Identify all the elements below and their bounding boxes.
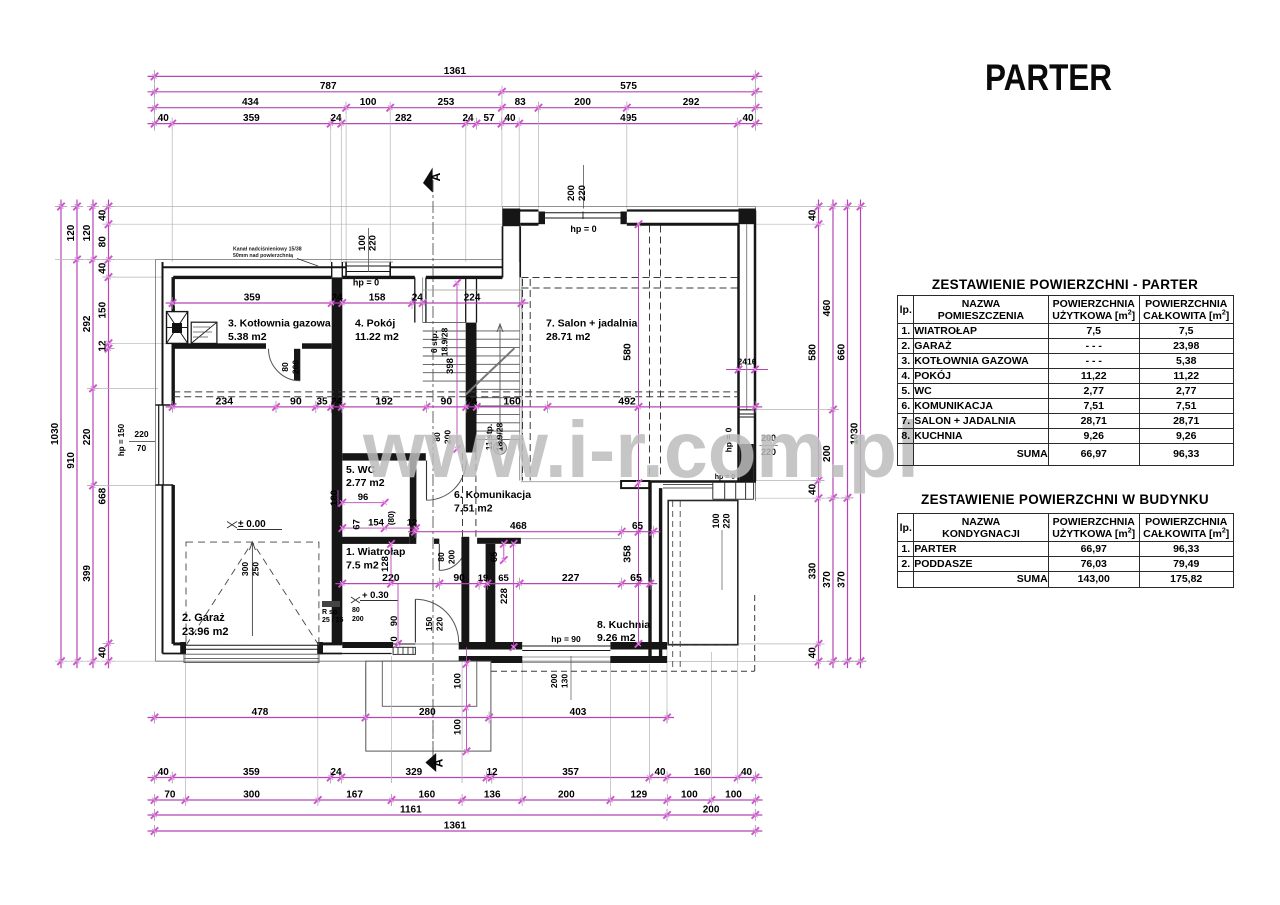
svg-text:40: 40 [98, 209, 109, 221]
svg-text:R sp.: R sp. [322, 609, 339, 616]
svg-text:7.51 m2: 7.51 m2 [454, 503, 493, 515]
wc dims 67/154/12 [342, 527, 416, 529]
extension lines bottom [365, 665, 367, 723]
section line A-A [432, 180, 434, 757]
svg-text:100: 100 [681, 789, 698, 800]
svg-text:40: 40 [158, 767, 170, 778]
dashed floor-above lines horizontal mid [173, 391, 738, 393]
svg-text:129: 129 [630, 789, 647, 800]
svg-text:70: 70 [137, 443, 147, 453]
svg-text:7. Salon + jadalnia: 7. Salon + jadalnia [546, 318, 637, 330]
svg-text:282: 282 [395, 113, 412, 124]
svg-text:180: 180 [329, 490, 340, 506]
svg-text:35: 35 [316, 396, 328, 407]
svg-text:668: 668 [98, 487, 109, 504]
WC door leaf + arc [438, 544, 440, 571]
wc dim 180 vertical [337, 490, 339, 507]
svg-text:200: 200 [352, 616, 364, 623]
right dimension chain 40/580/40/330/40 [818, 200, 820, 669]
svg-text:220: 220 [368, 235, 379, 251]
north wall inner face [173, 276, 332, 279]
svg-text:460: 460 [822, 299, 833, 316]
WC/wiatrolap wall [340, 537, 409, 544]
entrance threshold window [392, 643, 416, 645]
bay NE corner block [739, 209, 756, 225]
garage door [185, 644, 317, 646]
svg-text:hp = 150: hp = 150 [117, 423, 126, 456]
svg-text:65: 65 [632, 521, 644, 532]
svg-text:12: 12 [486, 767, 498, 778]
svg-text:90: 90 [453, 572, 465, 584]
stair arrow [499, 326, 501, 448]
svg-text:130: 130 [560, 674, 570, 688]
left dimension chain 40/80/40/150/12/668/40 [108, 200, 110, 669]
svg-text:150: 150 [98, 301, 109, 318]
bottom dimension chain row 1361 [148, 830, 763, 832]
svg-text:580: 580 [622, 343, 634, 361]
second boiler box [191, 322, 217, 343]
svg-text:+ 0.30: + 0.30 [362, 590, 389, 601]
porch vertical dim 100/100 [466, 645, 468, 751]
svg-text:200: 200 [574, 97, 591, 108]
svg-text:234: 234 [216, 395, 234, 407]
svg-text:40: 40 [98, 262, 109, 274]
entrance window north [346, 265, 390, 267]
interior chain 359/24/158/24/224 [166, 302, 529, 304]
svg-text:65: 65 [489, 551, 500, 562]
pokoj 398 vertical dim [456, 283, 458, 449]
kuchnia east wall [648, 482, 651, 663]
right dimension chain 1030 [860, 200, 862, 669]
bottom dimension chain row 478/280/403 [148, 717, 675, 719]
section arrow bottom [425, 753, 436, 772]
svg-text:11.22 m2: 11.22 m2 [355, 331, 399, 343]
svg-text:167: 167 [346, 789, 363, 800]
svg-text:(80): (80) [387, 511, 396, 526]
kuchnia south window [522, 645, 610, 647]
svg-text:359: 359 [243, 113, 260, 124]
svg-text:40: 40 [808, 647, 819, 659]
svg-text:329: 329 [406, 767, 423, 778]
svg-text:253: 253 [438, 97, 455, 108]
svg-text:300: 300 [240, 562, 250, 576]
wiatrolap 90 vertical dim [397, 584, 399, 644]
svg-text:292: 292 [683, 97, 700, 108]
svg-text:280: 280 [419, 707, 436, 718]
svg-text:70: 70 [164, 789, 176, 800]
svg-text:80: 80 [352, 607, 360, 614]
area table BUDYNEK [897, 492, 1233, 507]
wiatrolap east wall [461, 537, 469, 648]
svg-text:575: 575 [620, 81, 637, 92]
svg-text:468: 468 [510, 521, 527, 532]
svg-text:910: 910 [66, 452, 77, 469]
svg-text:1030: 1030 [50, 422, 61, 445]
svg-text:80: 80 [280, 362, 290, 372]
extension lines top [154, 70, 156, 131]
svg-text:8. Kuchnia: 8. Kuchnia [597, 619, 650, 631]
svg-text:136: 136 [484, 789, 501, 800]
south wall kuchnia right [610, 642, 667, 650]
area table PARTER [897, 277, 1233, 292]
svg-text:200: 200 [558, 789, 575, 800]
svg-text:1. Wiatrołap: 1. Wiatrołap [346, 546, 405, 558]
top dimension chain row 787/575 [148, 91, 763, 93]
svg-text:357: 357 [562, 767, 579, 778]
left dimension chain 1030 [60, 200, 62, 669]
dashed verticals komunikacja [462, 453, 464, 537]
north wall outer face [163, 266, 347, 268]
svg-text:370: 370 [837, 571, 848, 588]
svg-text:100: 100 [360, 97, 377, 108]
100/220 window size label [368, 228, 370, 272]
svg-text:80: 80 [436, 552, 446, 562]
svg-text:160: 160 [418, 789, 435, 800]
svg-text:227: 227 [562, 572, 580, 584]
svg-text:50mm nad powierzchnią: 50mm nad powierzchnią [233, 253, 293, 259]
garage window west wall [158, 405, 160, 485]
svg-text:6 stp.: 6 stp. [429, 331, 439, 353]
east porch steps [663, 484, 713, 486]
svg-text:100: 100 [725, 789, 742, 800]
svg-text:90: 90 [290, 395, 302, 407]
200/220 salon window size label [583, 165, 585, 209]
svg-text:220: 220 [134, 429, 148, 439]
svg-text:1361: 1361 [444, 66, 467, 77]
svg-text:40: 40 [98, 646, 109, 658]
west wall outer face [162, 262, 164, 405]
bottom dimension chain row 40..40 [148, 777, 763, 779]
svg-text:158: 158 [369, 292, 386, 303]
stair flight 1 treads [423, 322, 466, 324]
svg-text:370: 370 [822, 571, 833, 588]
svg-text:200: 200 [703, 804, 720, 815]
svg-text:40: 40 [741, 767, 753, 778]
terrace eave dashed [754, 595, 756, 672]
right dimension chain 660/370 [847, 200, 849, 669]
svg-text:83: 83 [515, 97, 527, 108]
pokoj door leaf + arc [426, 461, 428, 501]
salon bay left wall [503, 209, 521, 227]
svg-text:224: 224 [464, 292, 481, 303]
west wall inner face [171, 277, 174, 405]
garage apron [184, 654, 319, 662]
svg-text:787: 787 [320, 81, 337, 92]
svg-text:12: 12 [407, 518, 418, 529]
svg-text:80: 80 [98, 236, 109, 248]
title PARTER [985, 57, 1112, 99]
south wall salon/kuchnia step [650, 480, 757, 482]
svg-text:www.i-r.com.pl: www.i-r.com.pl [362, 405, 919, 494]
svg-text:154: 154 [368, 518, 385, 529]
svg-text:1161: 1161 [400, 804, 422, 815]
pokoj south wall [342, 453, 426, 460]
svg-text:228: 228 [499, 588, 510, 604]
svg-text:40: 40 [742, 113, 754, 124]
svg-text:100: 100 [357, 235, 368, 251]
svg-text:200: 200 [566, 185, 577, 201]
top dimension chain row 1361 [148, 75, 763, 77]
svg-text:403: 403 [570, 707, 587, 718]
stairwell west wall stub [414, 277, 416, 322]
top dimension chain row 434..292 [148, 107, 763, 109]
interior long chain 234..492 [166, 406, 763, 408]
svg-text:9.26 m2: 9.26 m2 [597, 632, 636, 644]
svg-text:± 0.00: ± 0.00 [238, 519, 266, 530]
svg-text:359: 359 [244, 292, 261, 303]
kuchnia north stub wall [621, 481, 649, 488]
extension lines left [103, 206, 503, 208]
svg-text:220: 220 [82, 428, 93, 445]
svg-text:200: 200 [447, 550, 457, 564]
boiler hatched box [167, 312, 188, 344]
wc dims 96 [342, 502, 384, 504]
svg-text:478: 478 [252, 707, 269, 718]
svg-text:200: 200 [549, 674, 559, 688]
dashed lines salon top [522, 277, 739, 279]
dashed verticals salon [522, 279, 524, 481]
kuchnia west wall T [477, 538, 521, 544]
south wall garage [163, 653, 186, 655]
svg-text:0: 0 [389, 636, 400, 641]
bottom dimension chain row 70..100 [148, 799, 763, 801]
svg-text:399: 399 [82, 565, 93, 582]
svg-text:660: 660 [837, 343, 848, 360]
svg-text:250: 250 [251, 562, 261, 576]
pokoj east / stair middle wall [465, 277, 467, 322]
svg-text:hp = 0: hp = 0 [353, 278, 379, 288]
bottom dimension chain row 1161/200 [148, 814, 763, 816]
salon bay top wall outer [503, 209, 539, 211]
svg-text:7.5 m2: 7.5 m2 [346, 560, 379, 572]
svg-text:24: 24 [330, 767, 342, 778]
svg-text:28.71 m2: 28.71 m2 [546, 331, 591, 343]
svg-text:65: 65 [498, 573, 509, 584]
svg-text:434: 434 [242, 97, 259, 108]
extension lines through porch [391, 662, 393, 784]
svg-text:160: 160 [694, 767, 711, 778]
komunikacja chain 468/65 [408, 531, 660, 533]
salon/komunikacja boundary thin line [521, 481, 621, 483]
svg-text:12: 12 [98, 340, 109, 352]
svg-text:40: 40 [808, 209, 819, 221]
kotlownia door leaf + arc [294, 349, 300, 381]
svg-text:220: 220 [722, 513, 732, 528]
svg-text:120: 120 [82, 224, 93, 241]
svg-text:67: 67 [352, 519, 363, 530]
svg-text:580: 580 [808, 344, 819, 361]
extension lines right [756, 206, 866, 208]
svg-text:23.96 m2: 23.96 m2 [182, 626, 228, 638]
svg-text:1361: 1361 [444, 820, 467, 831]
svg-text:hp = 90: hp = 90 [551, 634, 581, 644]
svg-text:40: 40 [158, 113, 170, 124]
svg-text:100: 100 [711, 513, 721, 528]
chain 220/90/19/65/227/65 [335, 583, 657, 585]
svg-text:19: 19 [478, 573, 489, 584]
svg-text:24: 24 [331, 292, 343, 303]
section arrow top [423, 168, 433, 193]
garage/pokoj vertical wall [332, 277, 343, 644]
stairwell outline [519, 277, 521, 480]
svg-text:24: 24 [331, 396, 343, 407]
entrance door opening + leaf [415, 643, 458, 645]
svg-text:24: 24 [462, 113, 474, 124]
eave outline thin [155, 260, 157, 662]
salon 580/358 vertical dim [638, 224, 640, 644]
svg-text:330: 330 [808, 562, 819, 579]
svg-text:25 / 15: 25 / 15 [322, 617, 344, 624]
svg-text:120: 120 [66, 224, 77, 241]
south wall wiatrolap [342, 642, 393, 648]
east wall of salon with window [754, 211, 757, 481]
svg-text:24: 24 [330, 113, 342, 124]
svg-text:18.9/28: 18.9/28 [440, 328, 450, 357]
left dimension chain 120/292/220/399 [92, 200, 94, 669]
right dimension chain 460/200/370 [832, 200, 834, 669]
svg-text:A: A [429, 172, 443, 181]
kuchnia 228 vertical dim [513, 544, 515, 647]
svg-text:495: 495 [620, 113, 637, 124]
wiatrolap 128 vertical dim [390, 544, 392, 584]
svg-text:300: 300 [243, 789, 260, 800]
svg-text:200: 200 [291, 360, 301, 374]
svg-text:90: 90 [389, 616, 400, 627]
svg-text:220: 220 [577, 185, 588, 201]
stair break line [466, 348, 515, 394]
svg-text:359: 359 [243, 767, 260, 778]
svg-text:128: 128 [380, 556, 391, 572]
svg-text:2416: 2416 [738, 357, 757, 367]
svg-text:5.38 m2: 5.38 m2 [228, 331, 267, 343]
kotlownia south partition [173, 343, 266, 349]
WC east wall [410, 461, 417, 539]
svg-text:hp = 0: hp = 0 [570, 224, 596, 234]
svg-text:4. Pokój: 4. Pokój [355, 318, 395, 330]
svg-text:398: 398 [445, 358, 456, 374]
stair flight 2 treads [477, 330, 520, 332]
south porch [366, 661, 491, 751]
kuchnia 65 vertical dim [503, 544, 505, 560]
south wall kuchnia left [459, 642, 523, 650]
svg-text:24: 24 [412, 292, 424, 303]
svg-text:292: 292 [82, 315, 93, 332]
top dimension chain row 40..40 [148, 123, 763, 125]
svg-text:Kanał nadciśnieniowy 15/38: Kanał nadciśnieniowy 15/38 [233, 247, 302, 253]
svg-text:65: 65 [630, 572, 642, 584]
salon bay window [539, 212, 627, 214]
svg-text:3. Kotłownia gazowa: 3. Kotłownia gazowa [228, 318, 331, 330]
svg-text:40: 40 [504, 113, 516, 124]
svg-text:2. Garaż: 2. Garaż [182, 612, 225, 624]
svg-text:A: A [432, 758, 446, 767]
salon bay top wall inner [520, 223, 538, 226]
left dimension chain 120/910 [76, 200, 78, 669]
terrace east of kuchnia [668, 501, 738, 645]
garage door swing dashed [186, 542, 319, 645]
svg-text:358: 358 [622, 545, 634, 563]
svg-text:57: 57 [483, 113, 495, 124]
svg-text:150: 150 [424, 617, 434, 631]
svg-text:220: 220 [435, 617, 445, 631]
svg-text:40: 40 [654, 767, 666, 778]
